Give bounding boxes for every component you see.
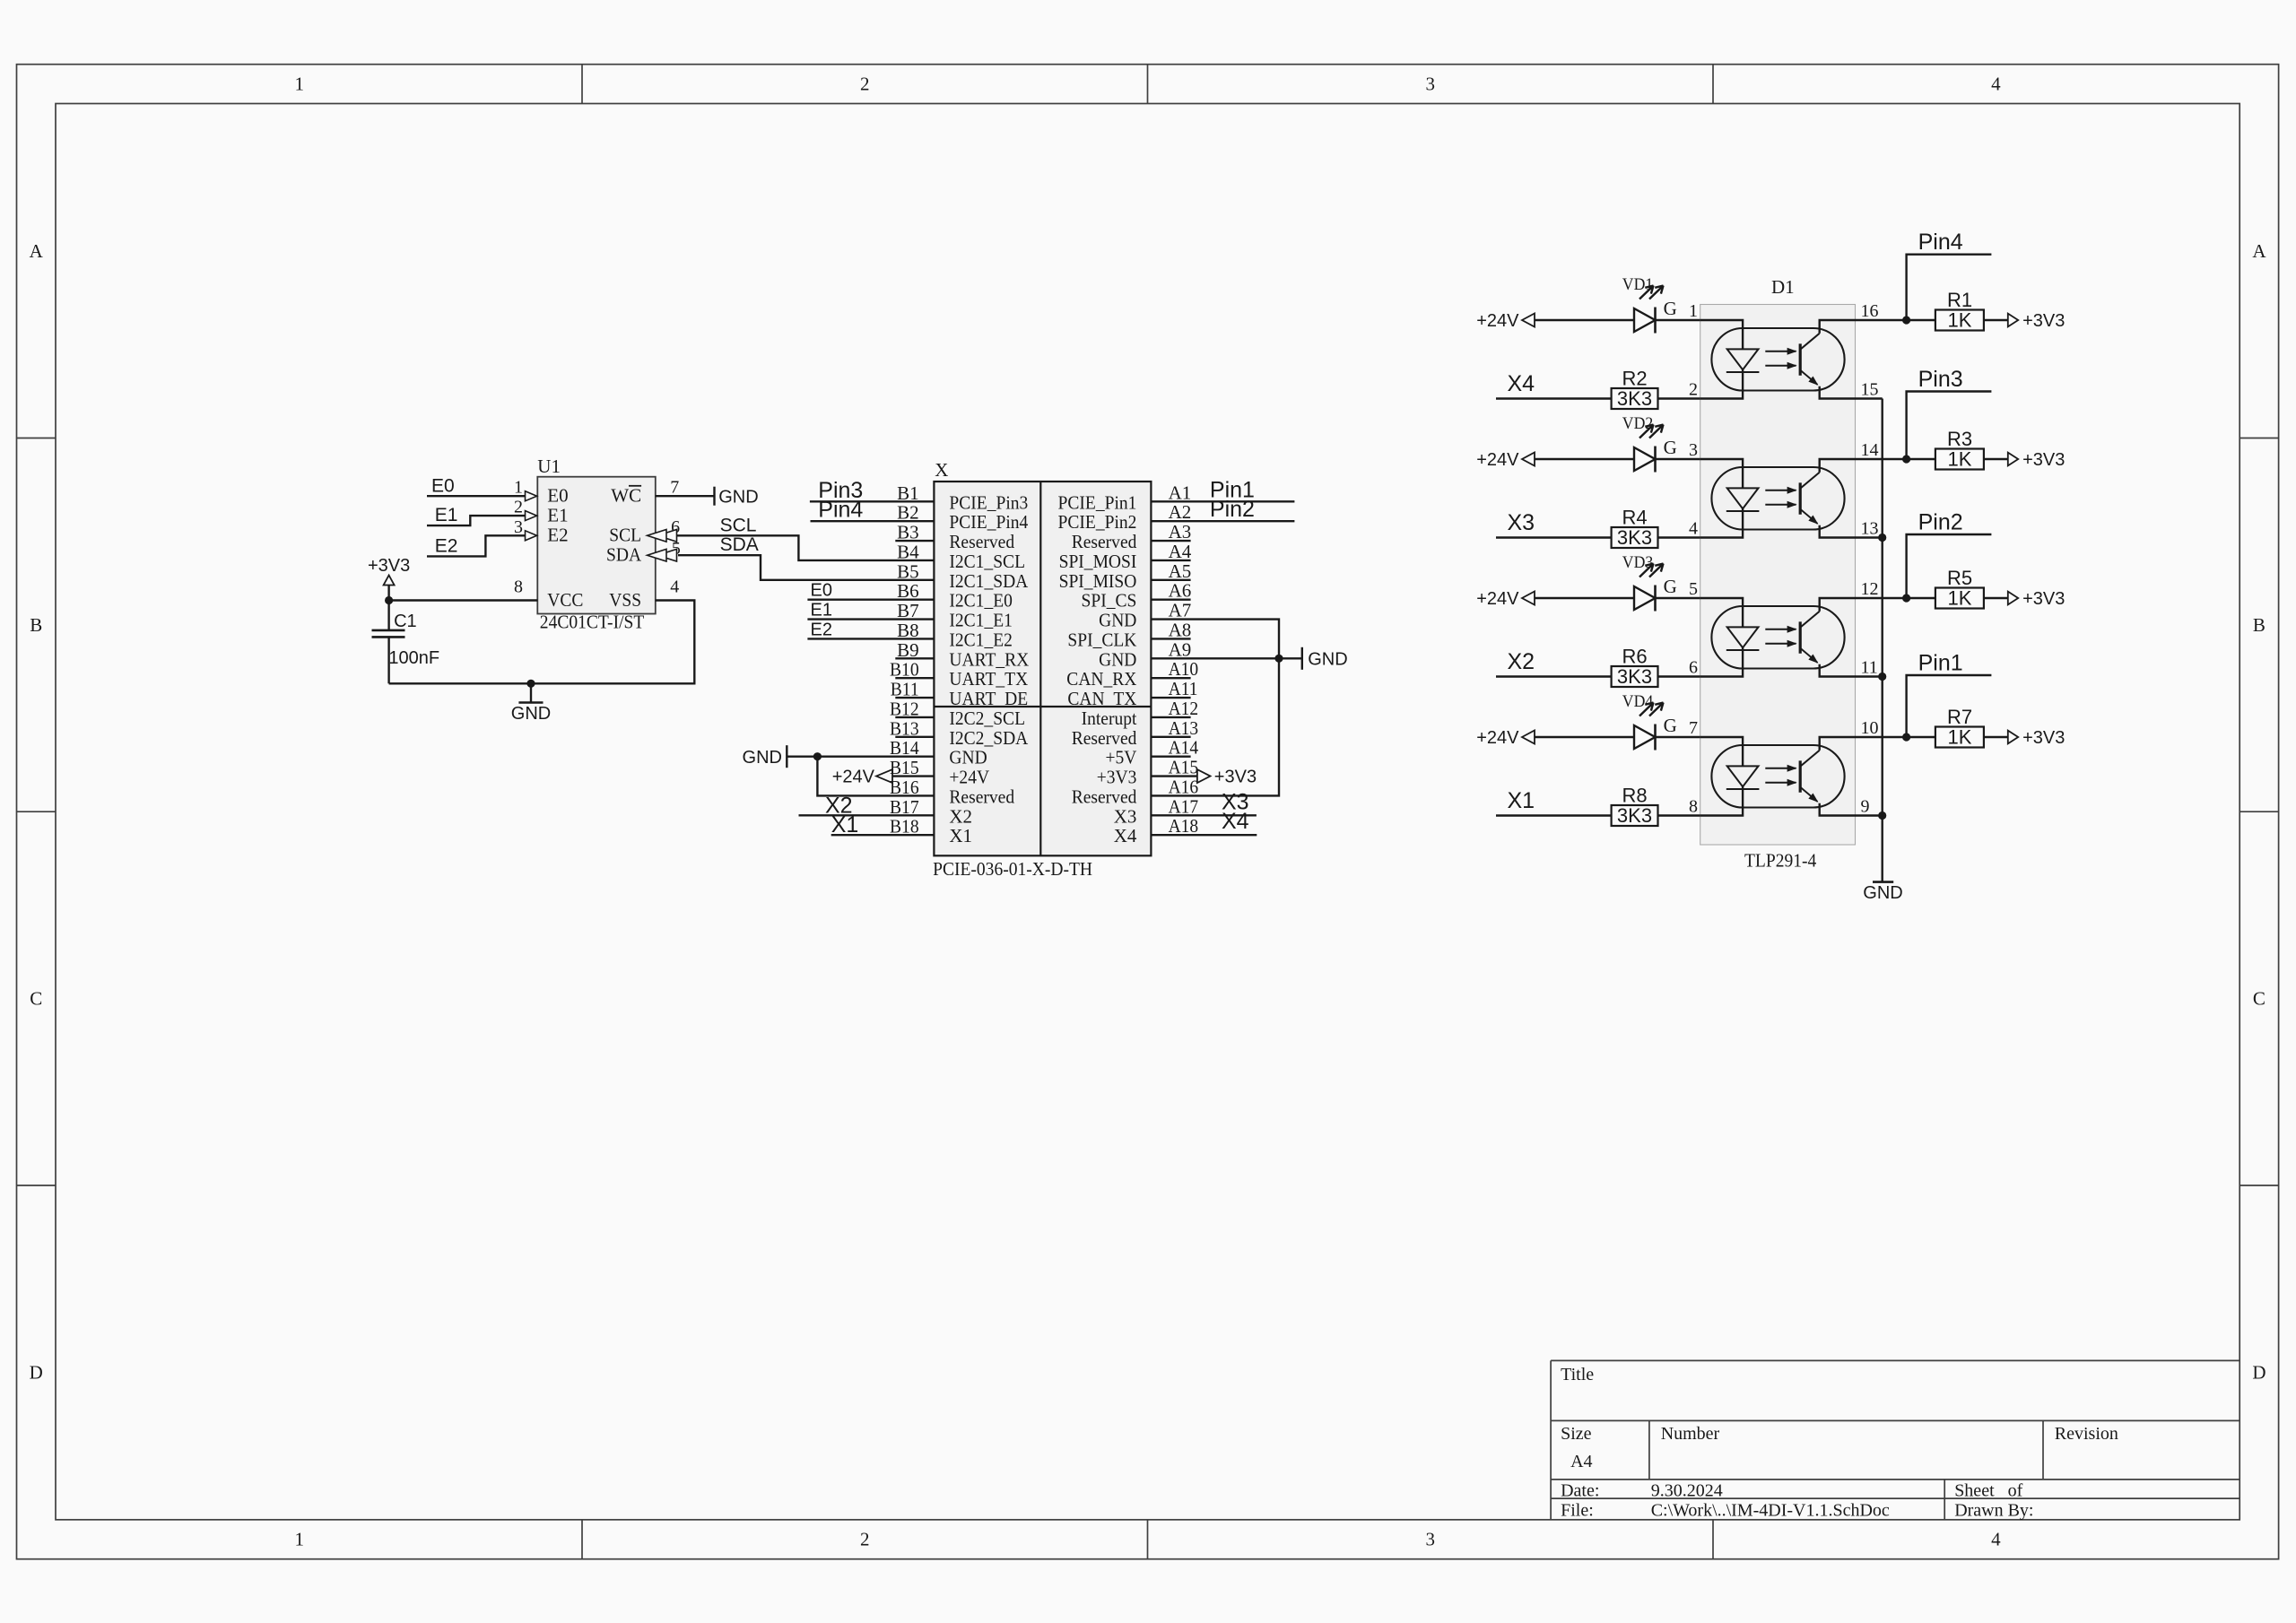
svg-text:A8: A8 bbox=[1169, 619, 1192, 640]
svg-text:3: 3 bbox=[1426, 1529, 1436, 1550]
svg-text:VCC: VCC bbox=[547, 589, 583, 611]
svg-text:1K: 1K bbox=[1948, 309, 1972, 332]
svg-text:G: G bbox=[1664, 576, 1677, 597]
svg-text:A13: A13 bbox=[1169, 717, 1199, 739]
svg-text:1K: 1K bbox=[1948, 448, 1972, 471]
svg-text:Pin2: Pin2 bbox=[1210, 497, 1255, 522]
svg-text:D: D bbox=[30, 1361, 43, 1383]
svg-text:C:\Work\..\IM-4DI-V1.1.SchDoc: C:\Work\..\IM-4DI-V1.1.SchDoc bbox=[1651, 1501, 1890, 1521]
svg-text:B: B bbox=[30, 614, 42, 636]
svg-text:24C01CT-I/ST: 24C01CT-I/ST bbox=[540, 612, 645, 633]
svg-text:+24V: +24V bbox=[1476, 311, 1519, 331]
svg-text:I2C1_SCL: I2C1_SCL bbox=[949, 551, 1025, 572]
svg-text:A9: A9 bbox=[1169, 638, 1192, 660]
svg-text:X4: X4 bbox=[1222, 809, 1249, 834]
svg-text:C: C bbox=[2253, 988, 2266, 1010]
svg-text:Size: Size bbox=[1561, 1424, 1592, 1444]
svg-text:Revision: Revision bbox=[2055, 1424, 2118, 1444]
svg-text:D1: D1 bbox=[1771, 276, 1795, 298]
svg-text:GND: GND bbox=[1099, 648, 1136, 670]
svg-text:Interupt: Interupt bbox=[1082, 707, 1137, 729]
svg-text:14: 14 bbox=[1861, 440, 1879, 460]
svg-text:15: 15 bbox=[1861, 380, 1879, 400]
svg-text:GND: GND bbox=[1863, 883, 1902, 903]
svg-text:1: 1 bbox=[514, 478, 523, 498]
svg-text:B: B bbox=[2253, 614, 2266, 636]
svg-text:+24V: +24V bbox=[949, 767, 989, 788]
svg-text:SPI_MISO: SPI_MISO bbox=[1059, 570, 1137, 592]
svg-text:File:: File: bbox=[1561, 1501, 1594, 1521]
svg-text:GND: GND bbox=[1308, 650, 1347, 670]
svg-text:5: 5 bbox=[1689, 579, 1698, 599]
svg-text:Pin2: Pin2 bbox=[1918, 510, 1963, 535]
svg-text:Sheet of: Sheet of bbox=[1954, 1481, 2022, 1501]
svg-text:3: 3 bbox=[1689, 440, 1698, 460]
svg-text:A4: A4 bbox=[1570, 1452, 1592, 1471]
svg-text:SDA: SDA bbox=[720, 534, 759, 555]
svg-text:G: G bbox=[1664, 437, 1677, 458]
svg-text:TLP291-4: TLP291-4 bbox=[1744, 849, 1817, 871]
svg-text:E1: E1 bbox=[547, 504, 568, 525]
svg-text:Pin1: Pin1 bbox=[1918, 651, 1963, 676]
svg-text:3: 3 bbox=[1426, 74, 1436, 95]
svg-text:I2C2_SCL: I2C2_SCL bbox=[949, 707, 1025, 729]
svg-text:PCIE_Pin3: PCIE_Pin3 bbox=[949, 491, 1028, 513]
svg-text:VD1: VD1 bbox=[1622, 275, 1653, 294]
svg-text:X2: X2 bbox=[949, 805, 972, 827]
svg-text:16: 16 bbox=[1861, 301, 1879, 321]
svg-text:7: 7 bbox=[670, 478, 679, 498]
svg-text:X1: X1 bbox=[949, 825, 972, 846]
svg-text:E0: E0 bbox=[431, 476, 455, 497]
svg-text:2: 2 bbox=[514, 498, 523, 517]
svg-text:2: 2 bbox=[860, 1529, 870, 1550]
svg-text:A4: A4 bbox=[1169, 541, 1192, 562]
svg-text:A17: A17 bbox=[1169, 795, 1199, 817]
svg-text:I2C1_E1: I2C1_E1 bbox=[949, 610, 1013, 631]
svg-text:7: 7 bbox=[1689, 718, 1698, 738]
svg-text:A18: A18 bbox=[1169, 815, 1199, 837]
svg-text:+24V: +24V bbox=[1476, 589, 1519, 609]
svg-text:10: 10 bbox=[1861, 718, 1879, 738]
svg-text:E2: E2 bbox=[435, 536, 458, 557]
svg-text:A11: A11 bbox=[1169, 678, 1198, 699]
svg-text:A2: A2 bbox=[1169, 501, 1192, 523]
svg-text:11: 11 bbox=[1861, 658, 1878, 678]
svg-text:+5V: +5V bbox=[1106, 747, 1137, 768]
svg-text:A3: A3 bbox=[1169, 521, 1192, 542]
svg-text:A: A bbox=[2252, 240, 2266, 262]
svg-text:A1: A1 bbox=[1169, 482, 1192, 503]
svg-text:C1: C1 bbox=[394, 612, 417, 631]
svg-text:X1: X1 bbox=[831, 812, 859, 838]
svg-text:+3V3: +3V3 bbox=[1097, 767, 1137, 788]
svg-text:E1: E1 bbox=[811, 601, 832, 621]
svg-text:D: D bbox=[2252, 1361, 2266, 1383]
svg-text:Pin4: Pin4 bbox=[818, 498, 863, 523]
svg-text:A10: A10 bbox=[1169, 658, 1199, 680]
svg-text:X2: X2 bbox=[1508, 649, 1535, 674]
svg-text:SCL: SCL bbox=[609, 525, 641, 546]
svg-text:Reserved: Reserved bbox=[949, 785, 1014, 807]
svg-text:13: 13 bbox=[1861, 519, 1879, 539]
svg-text:6: 6 bbox=[1689, 658, 1698, 678]
svg-text:B5: B5 bbox=[897, 560, 919, 582]
svg-text:2: 2 bbox=[860, 74, 870, 95]
svg-text:+24V: +24V bbox=[1476, 450, 1519, 470]
svg-text:Reserved: Reserved bbox=[1072, 531, 1137, 552]
svg-text:Pin4: Pin4 bbox=[1918, 230, 1963, 255]
svg-text:A6: A6 bbox=[1169, 580, 1192, 602]
svg-text:+24V: +24V bbox=[832, 768, 875, 787]
svg-text:X1: X1 bbox=[1508, 788, 1535, 813]
svg-text:A14: A14 bbox=[1169, 737, 1199, 759]
svg-text:12: 12 bbox=[1861, 579, 1879, 599]
svg-text:4: 4 bbox=[1991, 74, 2001, 95]
svg-text:+3V3: +3V3 bbox=[2022, 450, 2065, 470]
svg-text:+3V3: +3V3 bbox=[2022, 311, 2065, 331]
svg-text:VSS: VSS bbox=[609, 589, 641, 611]
svg-text:CAN_TX: CAN_TX bbox=[1067, 688, 1136, 709]
svg-text:GND: GND bbox=[743, 748, 782, 768]
svg-text:Reserved: Reserved bbox=[1072, 727, 1137, 749]
svg-text:100nF: 100nF bbox=[388, 648, 439, 668]
svg-text:1K: 1K bbox=[1948, 587, 1972, 610]
svg-text:PCIE_Pin2: PCIE_Pin2 bbox=[1058, 511, 1137, 533]
svg-text:8: 8 bbox=[1689, 797, 1698, 817]
svg-text:Title: Title bbox=[1561, 1365, 1594, 1384]
svg-text:U1: U1 bbox=[537, 456, 561, 477]
svg-text:2: 2 bbox=[1689, 380, 1698, 400]
svg-text:VD4: VD4 bbox=[1622, 692, 1654, 711]
svg-text:I2C2_SDA: I2C2_SDA bbox=[949, 727, 1029, 749]
svg-text:4: 4 bbox=[670, 577, 679, 597]
svg-text:VD2: VD2 bbox=[1622, 414, 1653, 433]
svg-text:GND: GND bbox=[949, 747, 987, 768]
svg-text:I2C1_E0: I2C1_E0 bbox=[949, 590, 1013, 612]
svg-text:B4: B4 bbox=[897, 541, 919, 562]
svg-text:Date:: Date: bbox=[1561, 1481, 1599, 1501]
svg-text:SPI_CLK: SPI_CLK bbox=[1067, 629, 1136, 650]
svg-text:R7: R7 bbox=[1947, 706, 1972, 728]
svg-text:E0: E0 bbox=[547, 485, 568, 507]
svg-text:GND: GND bbox=[1099, 610, 1136, 631]
svg-text:GND: GND bbox=[718, 488, 758, 508]
svg-text:4: 4 bbox=[1991, 1529, 2001, 1550]
svg-text:9.30.2024: 9.30.2024 bbox=[1651, 1481, 1723, 1501]
svg-text:9: 9 bbox=[1861, 797, 1870, 817]
svg-text:A5: A5 bbox=[1169, 560, 1192, 582]
svg-text:X3: X3 bbox=[1508, 510, 1535, 535]
svg-text:E2: E2 bbox=[547, 525, 568, 546]
svg-text:SPI_MOSI: SPI_MOSI bbox=[1059, 551, 1137, 572]
svg-text:+3V3: +3V3 bbox=[2022, 589, 2065, 609]
svg-text:E2: E2 bbox=[811, 620, 832, 639]
svg-text:G: G bbox=[1664, 298, 1677, 319]
svg-text:Drawn By:: Drawn By: bbox=[1954, 1501, 2033, 1521]
svg-text:UART_TX: UART_TX bbox=[949, 668, 1028, 690]
svg-text:1K: 1K bbox=[1948, 726, 1972, 749]
svg-text:R2: R2 bbox=[1622, 368, 1647, 390]
svg-text:Reserved: Reserved bbox=[1072, 785, 1137, 807]
svg-text:R8: R8 bbox=[1622, 785, 1647, 807]
svg-text:R6: R6 bbox=[1622, 646, 1647, 668]
svg-text:PCIE_Pin1: PCIE_Pin1 bbox=[1058, 491, 1137, 513]
svg-text:G: G bbox=[1664, 715, 1677, 736]
svg-text:A15: A15 bbox=[1169, 757, 1199, 778]
svg-text:3K3: 3K3 bbox=[1617, 665, 1652, 688]
svg-text:A7: A7 bbox=[1169, 600, 1192, 621]
svg-text:GND: GND bbox=[511, 704, 551, 724]
svg-text:E1: E1 bbox=[435, 505, 458, 525]
svg-text:+3V3: +3V3 bbox=[2022, 728, 2065, 748]
svg-text:3K3: 3K3 bbox=[1617, 387, 1652, 410]
svg-text:A12: A12 bbox=[1169, 698, 1199, 719]
svg-text:R3: R3 bbox=[1947, 428, 1972, 450]
svg-text:UART_DE: UART_DE bbox=[949, 688, 1028, 709]
svg-text:A: A bbox=[30, 240, 44, 262]
svg-text:A16: A16 bbox=[1169, 776, 1199, 797]
svg-text:3K3: 3K3 bbox=[1617, 804, 1652, 827]
svg-text:4: 4 bbox=[1689, 519, 1698, 539]
svg-text:3K3: 3K3 bbox=[1617, 526, 1652, 549]
svg-text:R4: R4 bbox=[1622, 507, 1647, 529]
svg-text:VD3: VD3 bbox=[1622, 553, 1653, 572]
svg-text:I2C1_E2: I2C1_E2 bbox=[949, 629, 1013, 650]
svg-text:PCIE-036-01-X-D-TH: PCIE-036-01-X-D-TH bbox=[933, 858, 1092, 880]
svg-text:1: 1 bbox=[1689, 301, 1698, 321]
svg-text:Pin3: Pin3 bbox=[1918, 367, 1963, 392]
svg-text:X3: X3 bbox=[1114, 805, 1137, 827]
svg-text:X: X bbox=[935, 459, 948, 481]
svg-text:1: 1 bbox=[295, 1529, 305, 1550]
svg-text:E0: E0 bbox=[811, 581, 832, 601]
svg-text:I2C1_SDA: I2C1_SDA bbox=[949, 570, 1029, 592]
svg-text:SDA: SDA bbox=[606, 544, 642, 566]
svg-text:C: C bbox=[30, 988, 42, 1010]
svg-text:+24V: +24V bbox=[1476, 728, 1519, 748]
svg-text:SPI_CS: SPI_CS bbox=[1082, 590, 1137, 612]
svg-text:WC: WC bbox=[611, 485, 641, 507]
svg-text:X4: X4 bbox=[1114, 825, 1137, 846]
svg-text:X4: X4 bbox=[1508, 371, 1535, 396]
svg-text:CAN_RX: CAN_RX bbox=[1066, 668, 1136, 690]
svg-text:UART_RX: UART_RX bbox=[949, 648, 1029, 670]
svg-text:R5: R5 bbox=[1947, 567, 1972, 589]
svg-text:+3V3: +3V3 bbox=[368, 556, 410, 576]
svg-text:1: 1 bbox=[295, 74, 305, 95]
svg-text:3: 3 bbox=[514, 517, 523, 537]
svg-text:R1: R1 bbox=[1947, 289, 1972, 311]
svg-text:+3V3: +3V3 bbox=[1214, 768, 1257, 787]
svg-text:SCL: SCL bbox=[720, 515, 757, 535]
svg-text:8: 8 bbox=[514, 577, 523, 597]
svg-text:Number: Number bbox=[1661, 1424, 1720, 1444]
svg-text:Reserved: Reserved bbox=[949, 531, 1014, 552]
svg-text:PCIE_Pin4: PCIE_Pin4 bbox=[949, 511, 1028, 533]
